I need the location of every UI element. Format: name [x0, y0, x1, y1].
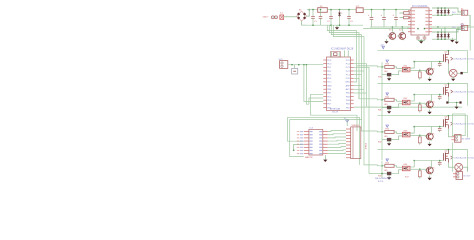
transistor Q13	[425, 166, 435, 175]
op-amp OK4 optocoupler	[402, 164, 410, 171]
wire Q12 collector	[413, 126, 443, 132]
svg-text:PD0: PD0	[327, 63, 332, 65]
svg-text:PB2: PB2	[346, 104, 351, 106]
wire Q13 collector	[413, 160, 443, 166]
wire MCU aux right	[354, 106, 462, 108]
node +5V flag	[380, 44, 385, 48]
svg-text:R30: R30	[378, 77, 381, 79]
svg-text:T4: T4	[432, 102, 435, 104]
transistor Q3	[397, 30, 405, 41]
svg-text:PB6: PB6	[327, 89, 332, 91]
wire channel 1 left rail	[381, 62, 383, 95]
wire X3 feed	[451, 8, 462, 15]
wire diode group2 feed	[442, 27, 446, 32]
wire RX to IC1	[304, 65, 323, 102]
wire MCU bus extra	[354, 86, 367, 93]
motor M1 load	[448, 64, 457, 77]
capacitor C7	[416, 35, 420, 40]
node +12V flag	[460, 24, 465, 29]
svg-text:R32: R32	[378, 142, 381, 144]
resistor R10	[381, 64, 402, 69]
wire bus loop 3	[331, 25, 377, 131]
op-amp IC1 microcontroller	[323, 48, 354, 114]
wire loop under MCU 1	[311, 94, 358, 131]
svg-text:X4 GATE: X4 GATE	[462, 138, 471, 141]
svg-text:AVC: AVC	[346, 88, 351, 91]
ground GND LED3	[387, 141, 391, 146]
wire MCU bus right	[354, 64, 378, 174]
capacitor C2	[327, 10, 333, 26]
svg-text:VCC: VCC	[327, 82, 332, 84]
wire far right drop	[468, 15, 470, 25]
op-amp U1 driver IC	[408, 5, 432, 35]
svg-text:1: 1	[341, 13, 343, 15]
resistor R11	[381, 97, 402, 102]
node OUT4 label	[451, 156, 474, 160]
resistor R22	[418, 135, 421, 144]
svg-text:PC5: PC5	[346, 60, 351, 62]
node flag NET1	[344, 118, 349, 126]
wire channel 4 left rail	[381, 161, 383, 178]
resistor R23	[418, 169, 421, 178]
resistor R12	[381, 129, 402, 134]
svg-text:+: +	[381, 14, 383, 17]
connector pad P2a	[446, 97, 461, 104]
resistor R13	[381, 163, 402, 168]
svg-text:T1: T1	[389, 30, 392, 32]
wire OK1 out	[410, 62, 427, 72]
ground GND Q10	[428, 77, 432, 82]
wire SV1 net	[288, 64, 324, 66]
ground GND1	[335, 25, 339, 30]
svg-text:R17: R17	[405, 177, 410, 179]
svg-text:IC1 MEGA8-P DIL28: IC1 MEGA8-P DIL28	[331, 48, 354, 51]
wire load4 to X7	[459, 167, 468, 174]
transistor T1 MOSFET	[444, 51, 449, 64]
ground GND Q11	[428, 110, 432, 115]
svg-text:T2: T2	[399, 30, 402, 32]
transistor Q2	[387, 30, 395, 41]
node flag CH3	[386, 125, 389, 127]
wire bus IC4 to X5	[328, 131, 346, 154]
svg-text:CON-DA-5.08 (OUT4): CON-DA-5.08 (OUT4)	[453, 157, 474, 160]
svg-text:PB1: PB1	[346, 107, 351, 109]
connector pad P1	[457, 72, 468, 74]
ground GND2	[419, 39, 423, 44]
svg-text:PD1: PD1	[327, 67, 332, 69]
svg-text:PC3: PC3	[346, 67, 351, 69]
bridge rectifier B1	[297, 10, 307, 21]
svg-text:PC1: PC1	[346, 74, 351, 76]
wire U2 gnd stub	[324, 155, 326, 159]
node junction A	[293, 144, 304, 151]
svg-text:230V~: 230V~	[263, 16, 270, 18]
connector X7	[453, 172, 471, 180]
wire channel 1 top rail	[378, 50, 468, 73]
ground GND load 1	[451, 77, 455, 82]
node label WE1	[375, 178, 392, 183]
svg-text:T6: T6	[432, 168, 435, 170]
svg-text:T5: T5	[432, 134, 435, 136]
capacitor C8	[423, 35, 427, 40]
svg-text:X5 OUT: X5 OUT	[463, 176, 471, 178]
wire Q2 collector	[391, 27, 393, 32]
ground GND4	[450, 38, 454, 43]
capacitor C10	[438, 62, 442, 68]
wire bridge to V+ rail	[307, 9, 310, 16]
svg-text:+: +	[393, 14, 395, 17]
svg-text:LED: LED	[384, 71, 388, 73]
svg-text:GND: GND	[327, 85, 332, 87]
svg-text:PC4: PC4	[346, 63, 351, 65]
wire top rail A	[370, 26, 474, 28]
svg-text:8-POL: 8-POL	[378, 181, 385, 183]
svg-text:PB4: PB4	[346, 96, 351, 98]
node label R17	[405, 177, 410, 179]
wire Q11 collector	[413, 94, 443, 100]
capacitor C6	[393, 10, 398, 28]
regulator IC2	[356, 6, 363, 13]
ground GND Q13	[428, 176, 432, 181]
op-amp OK2 optocoupler	[402, 98, 410, 105]
diode LED4	[378, 170, 402, 178]
resistor R20	[418, 70, 421, 79]
wire loop under MCU 3	[290, 119, 362, 156]
wire channel 2 left rail	[381, 95, 383, 128]
connector X6	[452, 135, 471, 143]
capacitor C9	[319, 10, 323, 26]
svg-text:PD2: PD2	[327, 71, 332, 73]
capacitor C3	[347, 10, 353, 26]
ground GND3	[384, 39, 388, 44]
wire GND rail	[302, 24, 363, 26]
wire Q10 collector	[413, 61, 443, 67]
svg-text:R31: R31	[378, 110, 381, 112]
wire channel 2 top rail	[378, 83, 468, 106]
svg-text:Q1: Q1	[445, 52, 449, 54]
ground GND LED4	[387, 175, 391, 180]
connector X5	[346, 125, 366, 159]
svg-text:PD5: PD5	[327, 96, 332, 98]
node flag CH4	[386, 159, 389, 161]
svg-text:C1: C1	[314, 21, 317, 23]
wire V+ rail mid	[312, 9, 356, 11]
svg-text:MAX232: MAX232	[305, 156, 314, 159]
svg-text:24V: 24V	[452, 12, 456, 14]
node OUT3 label	[451, 122, 474, 126]
transistor T4 MOSFET	[444, 150, 449, 163]
wire TX to IC1	[306, 65, 323, 105]
capacitor C13	[438, 161, 442, 167]
wire loop under MCU 2	[288, 117, 360, 165]
op-amp OK1 optocoupler	[402, 65, 410, 72]
connector SV1	[279, 59, 288, 69]
wire OK4 out	[410, 161, 427, 171]
wire V+ rail left	[307, 9, 318, 11]
svg-text:ATMEGA8: ATMEGA8	[330, 108, 341, 111]
svg-text:C2: C2	[327, 21, 330, 23]
svg-text:PD3: PD3	[327, 74, 332, 76]
diode LED1	[378, 71, 402, 79]
op-amp U2 interface IC	[297, 128, 328, 159]
wire rail stubs at IC3	[408, 27, 432, 29]
connector X3	[452, 8, 468, 15]
svg-text:LED: LED	[384, 104, 388, 106]
wire channel4 feed	[369, 173, 383, 175]
wire bus loop 1	[327, 25, 377, 66]
svg-text:Q3: Q3	[445, 117, 449, 119]
resistor R1	[400, 12, 410, 15]
svg-text:PB7: PB7	[327, 93, 332, 95]
svg-text:PB5: PB5	[346, 93, 351, 95]
svg-text:PD6: PD6	[327, 100, 332, 102]
capacitor C12	[438, 127, 442, 133]
wire channel 3 top rail	[378, 115, 468, 138]
wire OK3 out	[410, 127, 427, 137]
crystal Q1	[330, 52, 340, 57]
switch S1	[292, 65, 298, 74]
transistor Q10	[425, 67, 435, 76]
svg-text:PC2: PC2	[346, 71, 351, 73]
wire bus loop 4	[333, 25, 377, 165]
svg-text:IC3 ULN2004A: IC3 ULN2004A	[412, 5, 428, 8]
node OUT2 label	[451, 90, 474, 94]
ground GND5	[455, 39, 459, 44]
node OUT1 label	[451, 57, 474, 61]
wire MOSFET3 to X6	[448, 129, 454, 137]
svg-text:ARF: ARF	[346, 84, 351, 87]
diode LED3	[378, 136, 402, 144]
svg-text:X1: X1	[280, 13, 283, 15]
motor M4 load	[448, 163, 462, 172]
connector X4	[452, 24, 468, 31]
fuse F1	[318, 6, 328, 12]
diode LED2	[378, 104, 402, 112]
capacitor C11	[438, 95, 442, 101]
node flag CH1	[386, 60, 389, 62]
diode D1	[338, 10, 343, 26]
wire channel 3 input link	[378, 130, 383, 133]
transistor Q12	[425, 132, 435, 141]
svg-text:PC0: PC0	[346, 78, 351, 80]
wire bus loop 2	[329, 25, 377, 99]
wire right loop rect	[452, 114, 465, 136]
capacitor C1	[311, 10, 317, 26]
wire OK2 out	[410, 95, 427, 104]
ground GND Q12	[428, 142, 432, 147]
wire X1 to bridge	[284, 16, 297, 18]
ground GND LED1	[387, 76, 391, 81]
svg-text:PB3: PB3	[346, 100, 351, 102]
wire bridge to GND rail	[302, 21, 306, 25]
wire Q3 collector	[401, 27, 403, 32]
svg-text:Q2: Q2	[445, 85, 449, 87]
svg-text:PD4: PD4	[327, 78, 332, 80]
node flag CH2	[386, 93, 389, 95]
svg-text:GND: GND	[345, 82, 350, 84]
wire crystal to IC1 pins	[332, 50, 349, 57]
wire channel 1 input link	[378, 66, 383, 67]
wire right edge drop	[451, 142, 453, 171]
connector X1 mains input	[263, 13, 284, 20]
wire C7 C8 join	[418, 40, 425, 42]
resistor R21	[418, 103, 421, 112]
wire X4 feed	[451, 27, 462, 39]
svg-text:T3: T3	[432, 69, 435, 71]
svg-text:C3: C3	[350, 21, 353, 23]
svg-text:Q4: Q4	[445, 151, 449, 153]
diode array D6-D9	[432, 31, 457, 40]
svg-text:CON-DA-5.08 (OUT2): CON-DA-5.08 (OUT2)	[453, 91, 474, 94]
transistor T3 MOSFET	[444, 116, 449, 129]
svg-text:LED: LED	[384, 170, 388, 172]
svg-text:SUB-D9: SUB-D9	[352, 125, 360, 127]
svg-text:F09HP: F09HP	[364, 143, 366, 150]
svg-text:PD7: PD7	[327, 104, 332, 106]
transistor T2 MOSFET	[444, 84, 449, 97]
diode array D2-D5	[432, 7, 452, 16]
svg-text:CON-DA-5.08 (OUT1): CON-DA-5.08 (OUT1)	[453, 58, 474, 61]
wire channel 2 input link	[378, 99, 383, 100]
svg-text:CON-DA-5.08 (OUT3): CON-DA-5.08 (OUT3)	[453, 123, 474, 126]
wire top rail B	[363, 28, 462, 30]
wire channel 3 left rail	[381, 127, 383, 160]
ground GND LED2	[387, 109, 391, 114]
svg-text:PC6: PC6	[327, 60, 332, 62]
svg-text:DIL28: DIL28	[332, 111, 339, 113]
ground GND P2	[455, 102, 459, 109]
capacitor C5	[381, 10, 386, 28]
wire V+ rail right	[363, 9, 410, 11]
svg-text:+: +	[368, 14, 370, 17]
transistor Q11	[425, 100, 435, 109]
ground GND6	[323, 157, 327, 162]
op-amp OK3 optocoupler	[402, 130, 410, 137]
svg-text:LED: LED	[384, 136, 388, 138]
capacitor C4	[368, 10, 373, 28]
wire channel 4 top rail	[378, 149, 468, 172]
svg-text:12V: 12V	[452, 27, 456, 29]
resistor R2	[400, 16, 410, 19]
wire channel 4 input link	[378, 164, 383, 167]
wire right edge rail	[469, 15, 471, 51]
